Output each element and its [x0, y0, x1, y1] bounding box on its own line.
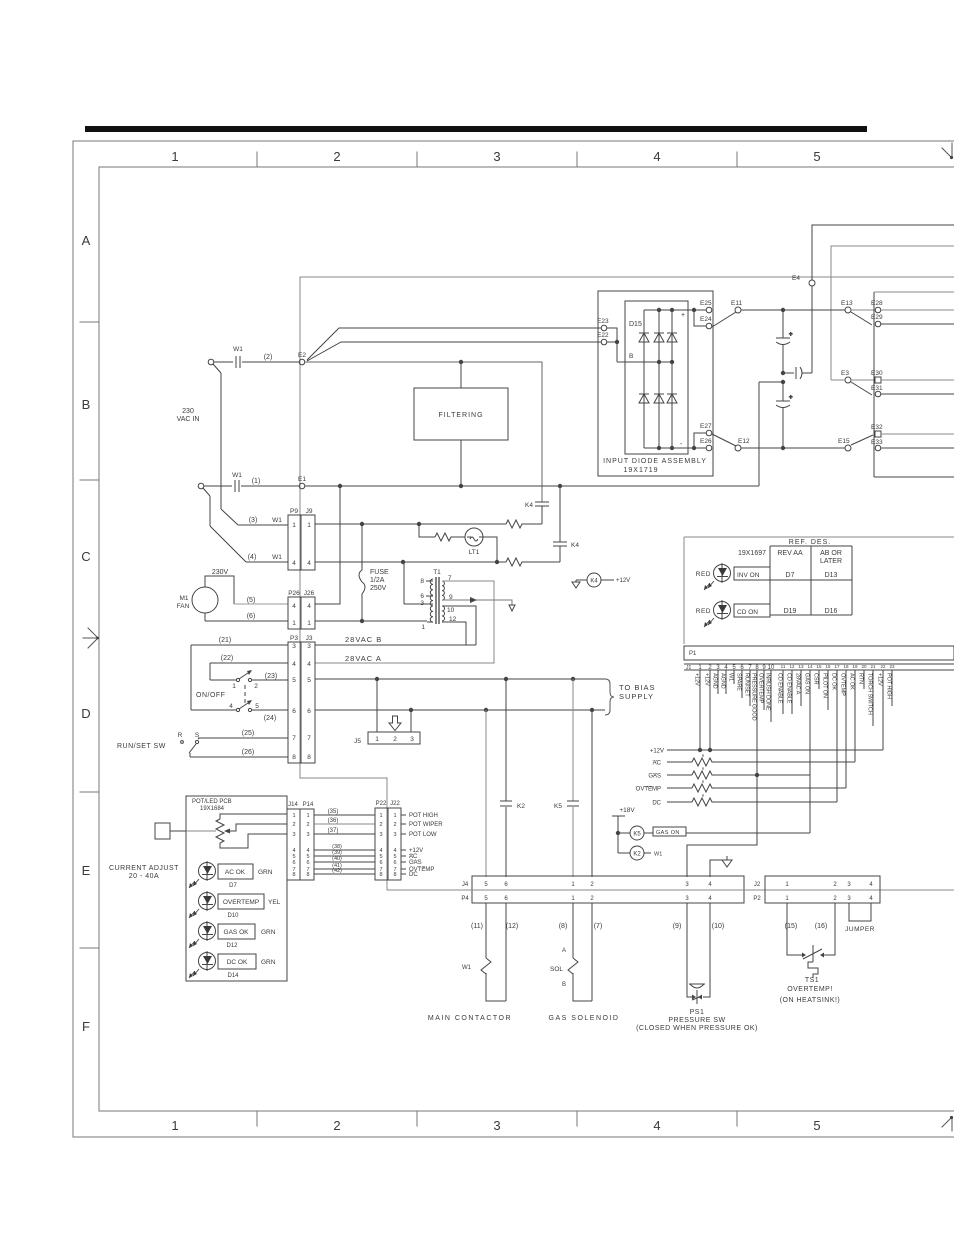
- control PCB enclosure (light): [684, 537, 954, 644]
- bridge columns: [644, 310, 672, 448]
- svg-text:DC: DC: [409, 872, 418, 878]
- wire E3 to E31: [851, 382, 872, 395]
- svg-text:4: 4: [292, 560, 296, 567]
- svg-text:3: 3: [292, 643, 296, 650]
- relay coil K5: [618, 832, 630, 834]
- box DC OK: [218, 954, 256, 969]
- svg-text:POT LOW: POT LOW: [409, 832, 437, 838]
- connector J14/P14: [287, 809, 314, 880]
- svg-text:20 - 40A: 20 - 40A: [129, 873, 159, 880]
- svg-text:E: E: [82, 863, 91, 878]
- svg-text:+12V: +12V: [616, 578, 630, 584]
- svg-text:+12V: +12V: [694, 673, 700, 686]
- svg-text:P4: P4: [461, 896, 469, 902]
- box GAS ON: [653, 827, 686, 836]
- svg-text:21: 21: [870, 664, 876, 669]
- svg-text:1: 1: [375, 736, 379, 743]
- svg-text:5: 5: [813, 149, 820, 164]
- svg-text:6: 6: [306, 860, 309, 866]
- svg-text:(3): (3): [249, 517, 258, 524]
- svg-text:D12: D12: [226, 943, 238, 949]
- wire E2 to K4 contact: [305, 362, 542, 502]
- switch ON/OFF upper: [236, 678, 239, 681]
- connector P9/J9: [288, 515, 315, 570]
- svg-text:E2: E2: [298, 352, 306, 359]
- wire T1 pin9 to chassis: [442, 600, 512, 605]
- contact K5: [567, 801, 579, 806]
- wire break W1 main contactor: [481, 958, 491, 974]
- svg-text:230V: 230V: [212, 569, 229, 576]
- svg-text:(9): (9): [673, 923, 682, 930]
- wire K5 contact branch: [572, 679, 574, 877]
- svg-text:1: 1: [393, 813, 396, 819]
- svg-text:S: S: [195, 732, 200, 739]
- svg-text:B: B: [82, 397, 91, 412]
- svg-text:E32: E32: [871, 424, 883, 431]
- connector P1: [684, 646, 954, 660]
- T1 primary winding: [430, 579, 433, 622]
- transformer T1 core: [436, 577, 439, 624]
- wire filtering top: [460, 362, 462, 388]
- J1 pin 16 wire PILOT ON: [827, 670, 829, 710]
- wire (6): [205, 620, 288, 622]
- svg-text:D16: D16: [825, 608, 838, 615]
- svg-text:W1: W1: [654, 852, 662, 858]
- zone continuation arrow bottom right: [942, 1117, 952, 1131]
- svg-text:E4: E4: [792, 275, 800, 282]
- svg-text:J1: J1: [686, 665, 692, 671]
- svg-text:E31: E31: [871, 385, 883, 392]
- J1 pin 20 wire RTN: [863, 670, 865, 689]
- svg-text:LT1: LT1: [469, 549, 480, 556]
- svg-text:1: 1: [307, 522, 311, 529]
- svg-text:28VAC A: 28VAC A: [795, 673, 801, 695]
- wire filtering bottom: [460, 440, 462, 486]
- svg-text:12: 12: [449, 616, 457, 623]
- svg-text:TO BIAS: TO BIAS: [619, 683, 655, 692]
- GAS rail with resistor: [667, 774, 810, 776]
- svg-text:W1: W1: [232, 472, 242, 479]
- svg-text:3: 3: [306, 832, 309, 838]
- svg-text:6: 6: [292, 708, 296, 715]
- svg-text:CD ENABLE: CD ENABLE: [786, 673, 792, 704]
- led D12: [199, 923, 216, 940]
- coupling capacitor to E4: [783, 286, 812, 379]
- svg-text:J14: J14: [288, 802, 298, 808]
- svg-text:1/2A: 1/2A: [370, 577, 385, 584]
- svg-text:(8): (8): [559, 923, 568, 930]
- J1 pin 1 wire +12V: [699, 670, 701, 750]
- svg-text:250V: 250V: [370, 585, 387, 592]
- svg-text:P26: P26: [288, 590, 300, 597]
- capacitor K4 upper: [535, 502, 549, 524]
- svg-text:E33: E33: [871, 439, 883, 446]
- svg-text:T1: T1: [433, 569, 441, 576]
- svg-text:3: 3: [420, 600, 424, 607]
- fan M1: [192, 587, 218, 613]
- svg-text:1: 1: [232, 683, 236, 690]
- svg-text:19X1719: 19X1719: [623, 467, 658, 474]
- svg-text:INPUT DIODE ASSEMBLY: INPUT DIODE ASSEMBLY: [603, 458, 707, 465]
- pcb edge divider (light): [387, 889, 954, 891]
- node E31: [875, 391, 881, 397]
- svg-text:19: 19: [852, 664, 858, 669]
- svg-text:+12V: +12V: [704, 673, 710, 686]
- ferrite W1 on line (2): [214, 356, 299, 368]
- wire break SOL: [568, 958, 578, 974]
- chassis arrow K4: [576, 580, 587, 582]
- svg-text:CD ENABLE: CD ENABLE: [777, 673, 783, 704]
- svg-text:RED: RED: [696, 608, 711, 615]
- svg-text:AC: AC: [653, 761, 662, 767]
- svg-text:AC OK: AC OK: [225, 869, 246, 876]
- node E30: [875, 377, 881, 383]
- diode D15 a: [639, 333, 649, 342]
- zone labels: [81, 149, 820, 1133]
- svg-text:R: R: [178, 732, 183, 739]
- wire tap3 to wire(4): [403, 562, 405, 604]
- svg-text:FAN: FAN: [177, 603, 190, 610]
- svg-text:RTN: RTN: [858, 673, 864, 684]
- wire (4) row: [315, 561, 560, 563]
- fuse: [359, 524, 365, 621]
- labels input area: [177, 275, 801, 567]
- diode D15 b: [654, 333, 664, 342]
- svg-text:B: B: [562, 982, 566, 988]
- svg-text:P2: P2: [753, 896, 761, 902]
- wire E11 to E13: [741, 309, 845, 311]
- svg-text:+12V: +12V: [877, 673, 883, 686]
- svg-text:POT HIGH: POT HIGH: [886, 673, 892, 699]
- svg-text:YEL: YEL: [268, 899, 281, 906]
- contact K2: [500, 801, 512, 806]
- svg-text:+12V: +12V: [650, 749, 664, 755]
- svg-text:K4: K4: [525, 502, 533, 509]
- svg-text:6: 6: [393, 860, 396, 866]
- svg-text:1: 1: [306, 813, 309, 819]
- svg-text:1: 1: [171, 149, 178, 164]
- svg-text:E28: E28: [871, 300, 883, 307]
- bridge top bus: [644, 309, 706, 311]
- switch ON/OFF lower: [236, 708, 239, 711]
- wire (21): [191, 645, 288, 710]
- svg-text:22: 22: [880, 664, 886, 669]
- svg-text:K4: K4: [571, 542, 579, 549]
- wire E23/E22 to bridge B: [607, 328, 640, 362]
- wire T1 pin12 28VAC B: [315, 622, 476, 645]
- svg-text:(21): (21): [219, 637, 231, 644]
- main contactor coil wires: [486, 903, 506, 1001]
- wire E15 to E32: [851, 435, 873, 445]
- OVTEMP rail with resistor: [667, 787, 846, 789]
- J1 pin 15 wire CSR: [818, 670, 820, 689]
- node E26: [706, 445, 712, 451]
- J1 pin 5 wire W1: [733, 670, 735, 684]
- svg-text:(36): (36): [328, 818, 339, 824]
- svg-text:(2): (2): [264, 354, 273, 361]
- svg-text:1: 1: [292, 522, 296, 529]
- svg-text:GAS ON: GAS ON: [804, 673, 810, 694]
- svg-text:E22: E22: [597, 332, 609, 339]
- svg-text:E26: E26: [700, 438, 712, 445]
- jumper plug arrow J5: [389, 716, 401, 731]
- J1 pin 17 wire DC OK: [836, 670, 838, 802]
- svg-text:3: 3: [493, 1118, 500, 1133]
- node E3: [845, 377, 851, 383]
- svg-text:INV ON: INV ON: [737, 572, 760, 579]
- svg-text:D: D: [81, 706, 90, 721]
- J1 pin 4 wire AGND: [725, 670, 727, 694]
- led INV ON indicator: [714, 565, 731, 582]
- svg-text:P14: P14: [303, 802, 314, 808]
- svg-text:8: 8: [420, 578, 424, 585]
- svg-text:1: 1: [292, 813, 295, 819]
- labels rails: [619, 749, 704, 858]
- svg-text:CSR: CSR: [813, 673, 819, 684]
- connector J2/P2: [765, 876, 880, 903]
- svg-text:8: 8: [393, 872, 396, 878]
- wire (22): [210, 663, 288, 680]
- svg-text:1: 1: [307, 620, 311, 627]
- connector P26/J26: [288, 597, 315, 629]
- svg-text:E27: E27: [700, 423, 712, 430]
- AC rail with resistor: [667, 761, 855, 763]
- node E23: [601, 325, 607, 331]
- svg-text:OVERTEMP!: OVERTEMP!: [787, 986, 833, 993]
- svg-text:11: 11: [781, 664, 786, 669]
- J1 pin 8 wire PRESSURE GOOD: [687, 670, 757, 877]
- svg-text:E25: E25: [700, 300, 712, 307]
- 230 VAC IN input terminal top: [208, 359, 214, 365]
- svg-text:4: 4: [307, 661, 311, 668]
- svg-text:AGND: AGND: [712, 673, 718, 689]
- svg-text:7: 7: [292, 735, 296, 742]
- node E1: [299, 483, 305, 489]
- labels diode assembly / terminals: [597, 300, 883, 474]
- wire E27 to E12: [712, 434, 736, 446]
- node E2: [299, 359, 305, 365]
- J1 pin 22 wire +12V: [882, 670, 884, 750]
- svg-text:J9: J9: [306, 508, 313, 515]
- svg-text:MAIN CONTACTOR: MAIN CONTACTOR: [428, 1015, 512, 1022]
- svg-text:GAS OK: GAS OK: [224, 929, 250, 936]
- svg-text:(6): (6): [247, 613, 256, 620]
- svg-text:A: A: [82, 233, 91, 248]
- box OVERTEMP: [218, 894, 264, 909]
- svg-text:DC: DC: [652, 801, 661, 807]
- svg-text:REV AA: REV AA: [777, 550, 803, 557]
- svg-text:1: 1: [379, 813, 382, 819]
- svg-text:D10: D10: [227, 913, 239, 919]
- node E32: [875, 431, 881, 437]
- jumper P2 3-4: [849, 903, 871, 921]
- svg-text:(5): (5): [247, 597, 256, 604]
- svg-text:3: 3: [379, 832, 382, 838]
- wire (11) branch: [485, 710, 487, 877]
- +18V supply bar: [612, 816, 625, 853]
- svg-text:W1: W1: [272, 517, 282, 524]
- svg-text:(25): (25): [242, 730, 254, 737]
- svg-text:+: +: [789, 395, 793, 401]
- svg-text:6: 6: [420, 593, 424, 600]
- stubs P22 right: [401, 815, 406, 874]
- svg-text:3: 3: [410, 736, 414, 743]
- svg-text:E29: E29: [871, 314, 883, 321]
- svg-text:E15: E15: [838, 438, 850, 445]
- thermostat TS1: [787, 903, 835, 955]
- svg-text:CD ON: CD ON: [737, 609, 758, 616]
- wire LT1 branch: [419, 524, 497, 562]
- wire E13 to E29: [851, 312, 872, 325]
- diode D15 e: [654, 394, 664, 403]
- svg-text:ON/OFF: ON/OFF: [196, 692, 225, 699]
- led D7: [199, 863, 216, 880]
- J1 signal labels rotated: [694, 673, 892, 721]
- wire E2 to E23/E22 fanout: [307, 328, 601, 361]
- svg-text:POT HIGH: POT HIGH: [409, 813, 438, 819]
- labels T1 / fan: [177, 569, 457, 663]
- svg-text:M1: M1: [179, 595, 188, 602]
- harness wires J14 to P22: [314, 815, 375, 874]
- capacitor bank lower: [776, 382, 790, 448]
- svg-text:13: 13: [798, 664, 804, 669]
- svg-text:8: 8: [292, 872, 295, 878]
- connector J4/P4: [472, 876, 744, 903]
- svg-text:GAS: GAS: [409, 860, 422, 866]
- svg-text:5: 5: [307, 677, 311, 684]
- svg-text:5: 5: [255, 703, 259, 710]
- svg-text:JUMPER: JUMPER: [845, 926, 875, 933]
- svg-text:E23: E23: [597, 318, 609, 325]
- svg-text:FILTERING: FILTERING: [438, 412, 483, 419]
- svg-text:W1: W1: [728, 673, 734, 681]
- J1 pin 9 wire OVERTEMP: [763, 670, 765, 710]
- svg-text:D15: D15: [629, 321, 642, 328]
- svg-text:OVTEMP: OVTEMP: [636, 787, 661, 793]
- svg-text:POT/LED PCB: POT/LED PCB: [192, 799, 232, 805]
- svg-text:2: 2: [393, 736, 397, 743]
- pot wiper: [229, 824, 287, 831]
- led CD ON indicator: [714, 602, 731, 619]
- svg-text:TORCH SWITCH: TORCH SWITCH: [867, 673, 873, 715]
- wire J26-1 to T1 pin 1: [315, 620, 427, 622]
- box CD ON: [734, 604, 770, 617]
- svg-text:E24: E24: [700, 316, 712, 323]
- svg-text:8: 8: [306, 872, 309, 878]
- svg-text:J3: J3: [306, 635, 313, 642]
- input diode assembly outer box: [598, 291, 713, 476]
- capacitor K4 lower: [553, 486, 567, 562]
- svg-text:5: 5: [292, 677, 296, 684]
- wire (1) bus E1 to right riser: [305, 382, 783, 486]
- svg-text:AGND: AGND: [720, 673, 726, 689]
- node E29: [875, 321, 881, 327]
- svg-text:14: 14: [807, 664, 813, 669]
- connector P3/J3: [288, 642, 315, 763]
- J1 pin 14 wire GAS ON: [809, 670, 811, 833]
- labels switches / J3: [117, 578, 655, 810]
- svg-text:PRESSURE SW: PRESSURE SW: [668, 1017, 725, 1024]
- svg-text:8: 8: [307, 754, 311, 761]
- connector P22/J22: [375, 808, 401, 880]
- node E28: [875, 307, 881, 313]
- svg-text:4: 4: [307, 560, 311, 567]
- svg-text:SUPPLY: SUPPLY: [619, 692, 654, 701]
- svg-text:PILOT ON: PILOT ON: [822, 673, 828, 698]
- svg-text:17: 17: [834, 664, 840, 669]
- wire E24 to E11: [712, 312, 736, 327]
- wire (5): [234, 603, 288, 605]
- svg-text:19X1697: 19X1697: [738, 550, 766, 557]
- relay coil K4: [587, 573, 601, 587]
- outer border frame: [73, 141, 954, 1137]
- diode D15 f: [667, 394, 677, 403]
- svg-text:3: 3: [393, 832, 396, 838]
- J1 pin numbers: [698, 664, 895, 671]
- svg-text:(11): (11): [471, 923, 483, 930]
- wire bias supply row 6: [315, 709, 605, 711]
- node E11: [735, 307, 741, 313]
- switch link dashed: [244, 685, 246, 705]
- pressure switch PS1: [687, 903, 710, 997]
- svg-text:(15): (15): [785, 923, 797, 930]
- J1 pin 19 wire AC OK: [854, 670, 856, 762]
- svg-text:2: 2: [254, 683, 258, 690]
- svg-text:(4): (4): [248, 554, 257, 561]
- svg-text:K4: K4: [590, 579, 598, 585]
- svg-text:4: 4: [292, 603, 296, 610]
- svg-text:P3: P3: [290, 635, 298, 642]
- node E12: [735, 445, 741, 451]
- node E4: [809, 280, 815, 286]
- svg-text:230: 230: [182, 408, 194, 415]
- svg-text:1: 1: [171, 1118, 178, 1133]
- svg-text:(12): (12): [506, 923, 518, 930]
- svg-text:+: +: [789, 332, 793, 338]
- node E22: [601, 339, 607, 345]
- svg-text:(23): (23): [265, 673, 277, 680]
- svg-text:OVERTEMP: OVERTEMP: [223, 899, 259, 906]
- svg-text:2: 2: [333, 149, 340, 164]
- top rule bar: [85, 126, 867, 132]
- svg-text:(10): (10): [712, 923, 724, 930]
- bridge bottom bus: [644, 447, 706, 449]
- svg-text:GAS SOLENOID: GAS SOLENOID: [549, 1015, 620, 1022]
- svg-text:28VAC B: 28VAC B: [345, 635, 382, 644]
- box GAS OK: [218, 924, 255, 939]
- svg-text:2: 2: [379, 822, 382, 828]
- svg-text:SOL: SOL: [550, 966, 563, 973]
- J1 pin 21 wire TORCH SWITCH: [872, 670, 874, 726]
- J1 pin 2 wire +12V: [709, 670, 711, 750]
- svg-text:RUN/SET SW: RUN/SET SW: [117, 743, 166, 750]
- svg-text:(1): (1): [252, 478, 261, 485]
- wire bias supply row 5: [315, 678, 605, 680]
- chassis arrow at J4: [710, 856, 727, 877]
- svg-text:K5: K5: [633, 832, 641, 838]
- svg-text:D7: D7: [786, 572, 795, 579]
- svg-text:(CLOSED WHEN PRESSURE OK): (CLOSED WHEN PRESSURE OK): [636, 1025, 758, 1032]
- 230 VAC IN input terminal bottom: [198, 483, 204, 489]
- svg-text:AB OR: AB OR: [820, 550, 842, 557]
- wire E12 to E15: [741, 447, 845, 449]
- J1 pin 11 wire CD ENABLE: [782, 670, 784, 714]
- svg-text:(42): (42): [332, 868, 342, 874]
- led D10: [199, 893, 216, 910]
- svg-text:D19: D19: [784, 608, 797, 615]
- svg-text:(16): (16): [815, 923, 827, 930]
- svg-text:2: 2: [306, 822, 309, 828]
